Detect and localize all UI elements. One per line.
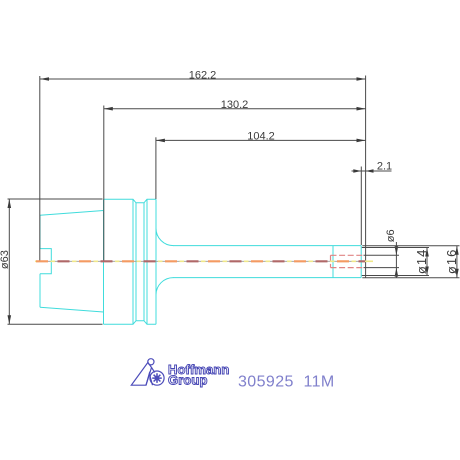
taper top line <box>40 211 104 216</box>
dimension 130.2 <box>104 106 366 262</box>
groove edge vertical left <box>132 199 134 324</box>
taper bottom line <box>40 307 104 312</box>
svg-text:104.2: 104.2 <box>247 130 275 142</box>
dimension dia6 <box>364 242 400 278</box>
dimension 162.2 <box>40 76 366 261</box>
shank back face upper <box>39 215 41 248</box>
groove edge vertical right <box>146 199 148 324</box>
flange bottom profile with V-groove <box>104 321 157 325</box>
flange top profile with V-groove <box>104 199 157 203</box>
shank bore notch <box>40 249 51 274</box>
svg-text:305925 11M: 305925 11M <box>238 374 335 391</box>
tool body outline <box>40 199 361 324</box>
shaft mid edge <box>332 246 334 278</box>
groove bottom vertical right <box>143 203 145 321</box>
shaft end face <box>360 246 362 278</box>
svg-text:2.1: 2.1 <box>377 160 392 172</box>
neck fillet top <box>156 228 173 245</box>
centerline <box>35 260 373 262</box>
shank back face lower <box>39 274 41 307</box>
dimension dia16 <box>362 246 459 278</box>
svg-text:ø63: ø63 <box>0 250 11 269</box>
svg-text:130.2: 130.2 <box>221 99 249 111</box>
Hoffmann logo mark <box>131 359 164 386</box>
svg-text:162.2: 162.2 <box>189 69 217 81</box>
svg-text:ø14: ø14 <box>414 249 429 274</box>
neck fillet bottom <box>156 278 173 295</box>
dimension dia14 <box>362 248 429 276</box>
logo gear <box>152 373 162 383</box>
hidden bore dia6 (red dashed) <box>331 255 364 267</box>
dimension dia63 <box>8 199 103 324</box>
svg-text:Group: Group <box>168 373 208 388</box>
svg-text:ø16: ø16 <box>444 249 459 274</box>
flange front face <box>155 199 157 324</box>
shaft bottom <box>173 277 361 279</box>
shaft top <box>173 245 361 247</box>
flange back face <box>103 199 105 324</box>
dimension 104.2 <box>156 137 366 199</box>
groove bottom vertical left <box>135 203 137 321</box>
dimension 2.1 <box>352 167 392 246</box>
svg-text:ø6: ø6 <box>385 229 397 242</box>
right common extension line <box>365 76 367 278</box>
